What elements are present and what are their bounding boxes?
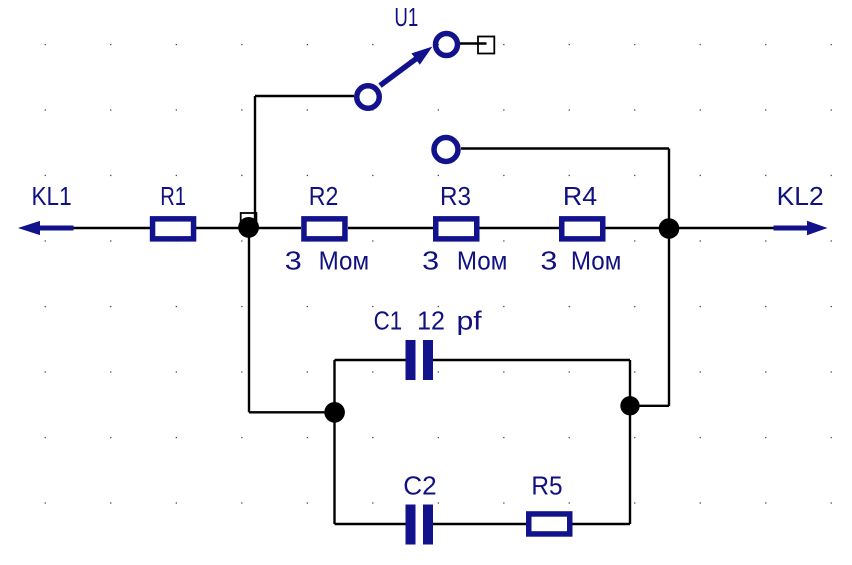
svg-text:Мом: Мом: [571, 246, 622, 276]
svg-text:3: 3: [285, 246, 302, 276]
svg-text:KL1: KL1: [32, 181, 72, 211]
svg-text:C2: C2: [403, 470, 436, 500]
svg-text:12: 12: [417, 305, 445, 335]
svg-text:Мом: Мом: [319, 246, 370, 276]
svg-text:R3: R3: [440, 181, 471, 211]
svg-text:3: 3: [422, 246, 439, 276]
svg-text:R4: R4: [563, 181, 597, 211]
svg-text:C1: C1: [374, 305, 403, 335]
svg-text:R5: R5: [531, 470, 562, 500]
svg-text:pf: pf: [457, 305, 483, 335]
svg-text:R2: R2: [309, 181, 339, 211]
svg-text:KL2: KL2: [777, 181, 824, 211]
svg-text:R1: R1: [160, 181, 186, 211]
svg-text:Мом: Мом: [457, 246, 508, 276]
svg-text:3: 3: [540, 246, 557, 276]
svg-text:U1: U1: [394, 2, 418, 32]
